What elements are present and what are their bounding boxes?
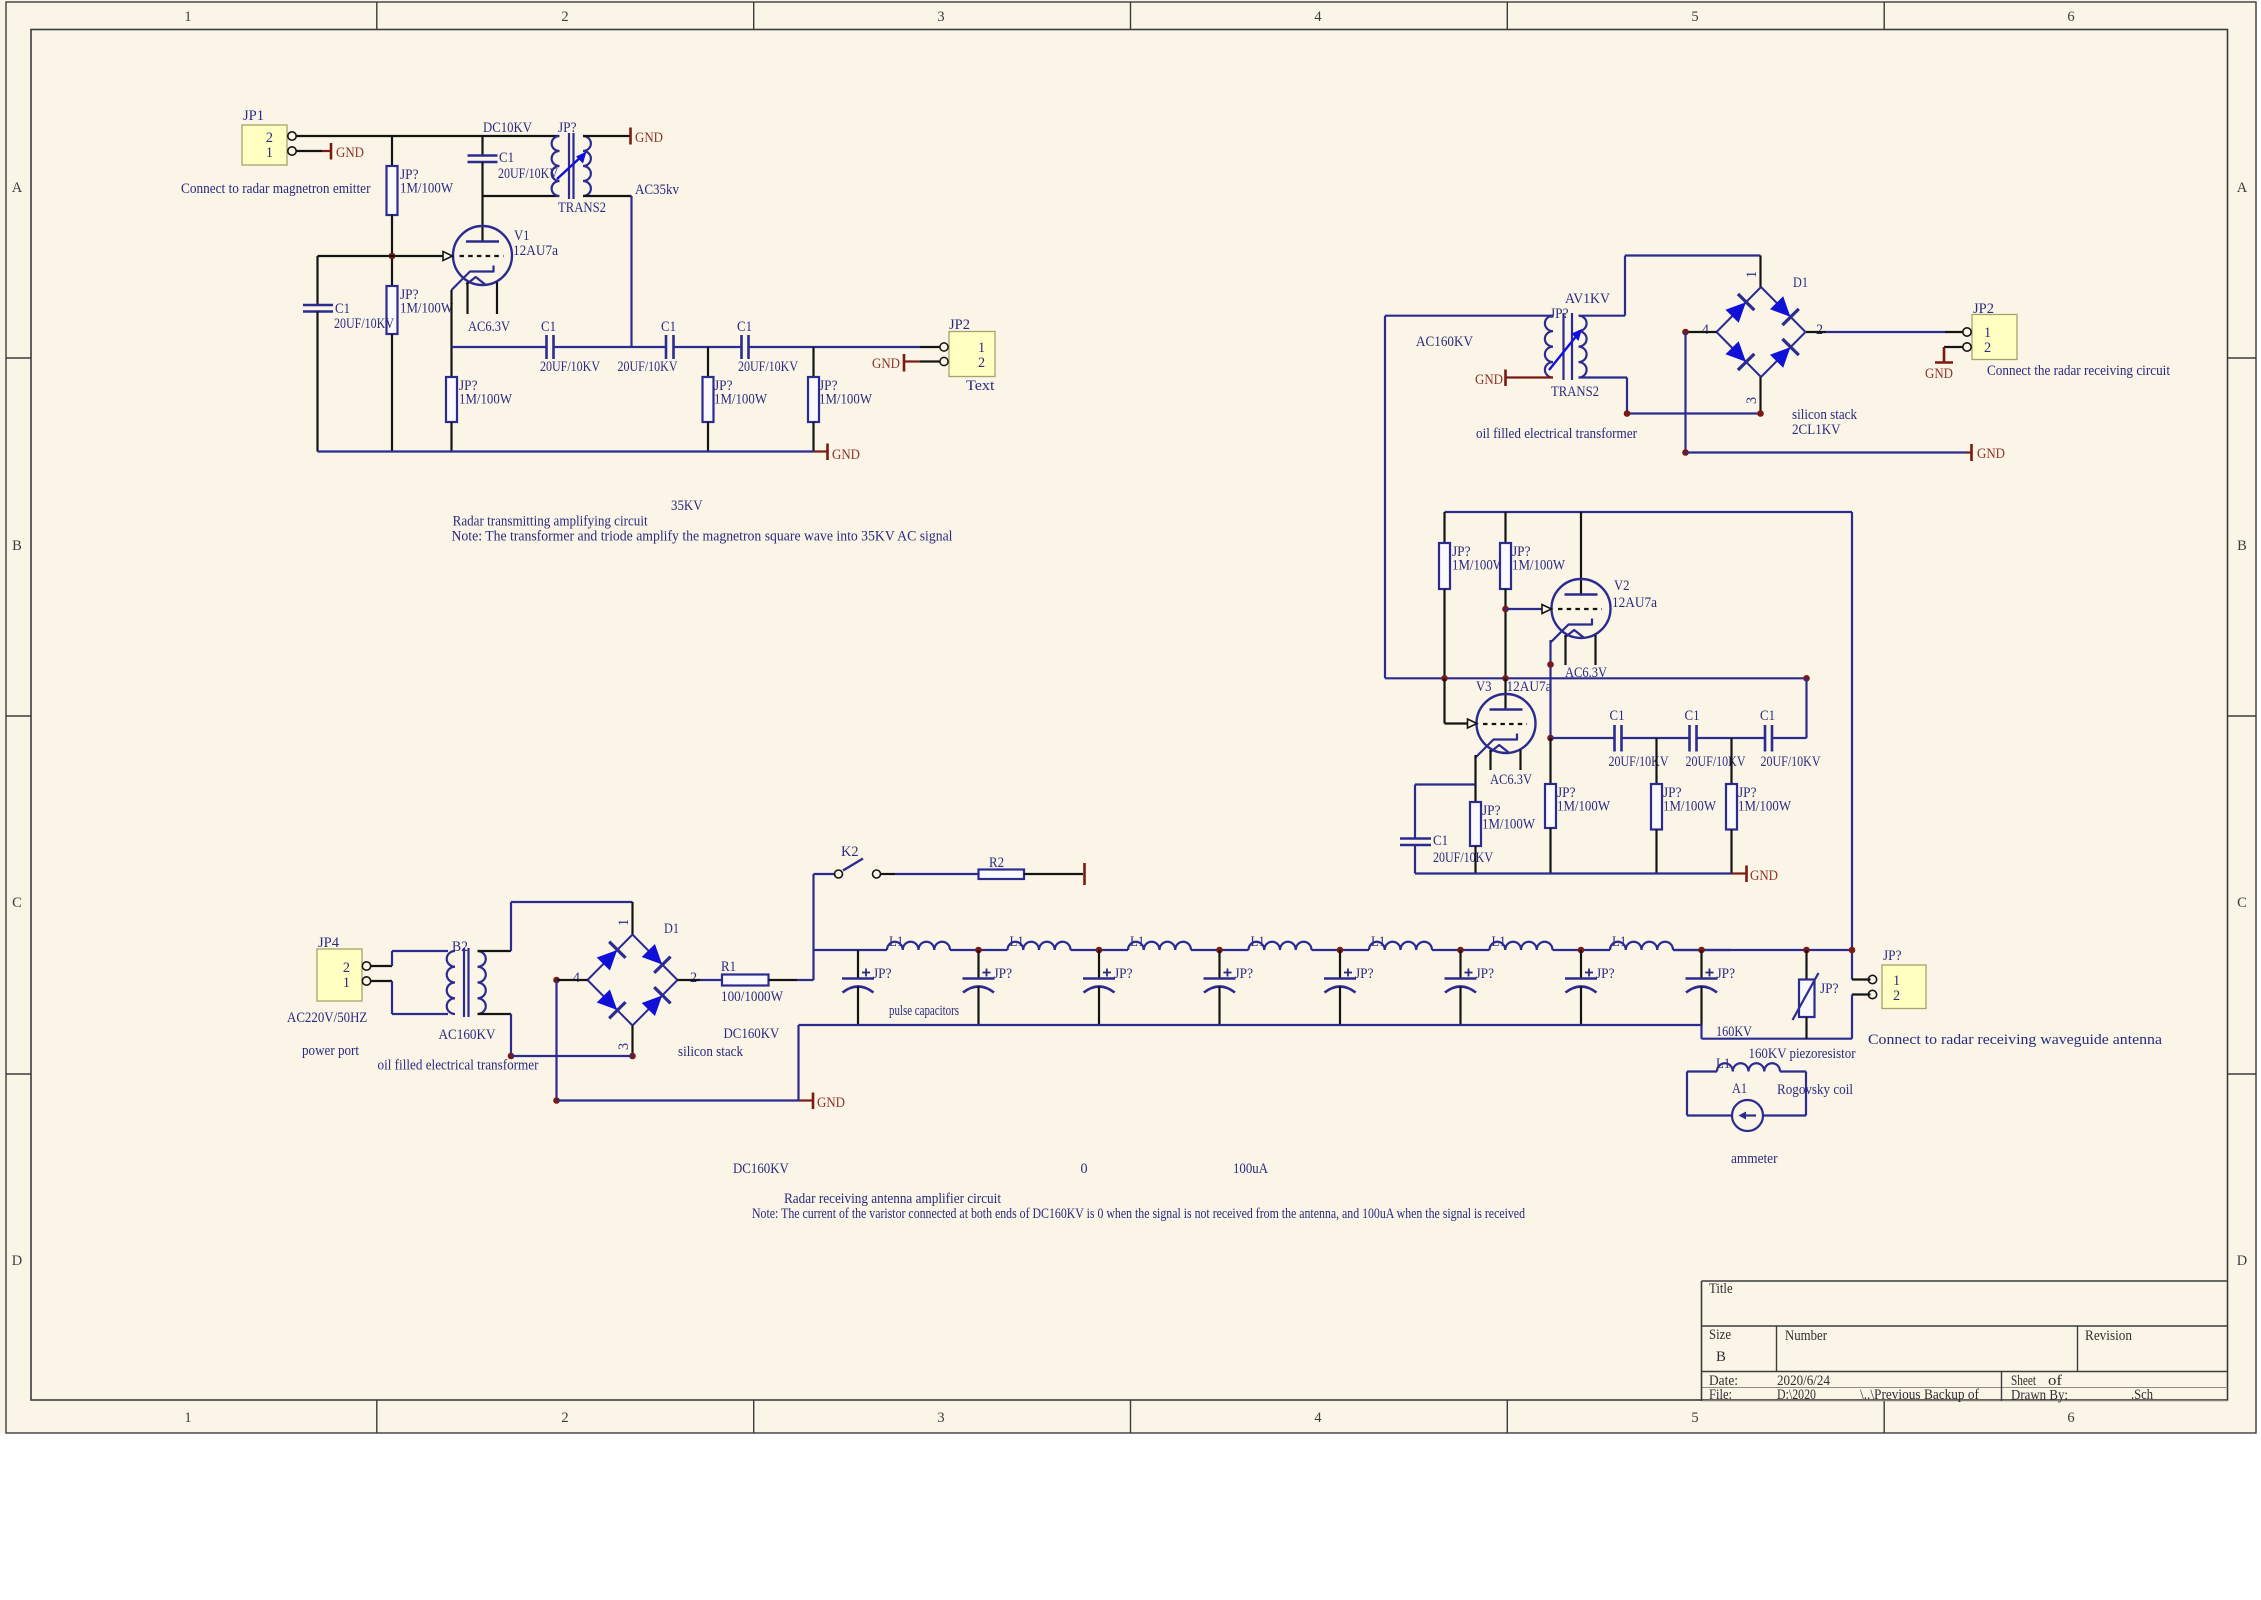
svg-text:GND: GND	[635, 130, 663, 146]
svg-text:DC10KV: DC10KV	[483, 120, 533, 136]
junction dots bridge pin3 wire	[1624, 410, 1764, 417]
svg-text:AC160KV: AC160KV	[1416, 334, 1474, 350]
svg-text:power port: power port	[302, 1043, 359, 1059]
svg-text:A: A	[12, 180, 23, 196]
resistor R1 100/1000W	[678, 959, 814, 1005]
svg-text:20UF/10KV: 20UF/10KV	[1686, 754, 1747, 770]
svg-text:JP?: JP?	[1820, 981, 1839, 997]
resistor R2	[881, 855, 1084, 879]
svg-text:6: 6	[2067, 1410, 2074, 1426]
wire bridge pin2 to JP2	[1806, 331, 1963, 333]
V1 heater pins and AC6.3V	[468, 282, 511, 335]
svg-text:4: 4	[1314, 1410, 1322, 1426]
title block texts	[1709, 1281, 2154, 1404]
capacitor C1 20UF/10KV (rail cap B)	[618, 319, 679, 375]
svg-text:GND: GND	[1925, 366, 1953, 382]
svg-text:Connect to radar magnetron emi: Connect to radar magnetron emitter	[181, 181, 371, 197]
svg-text:B2: B2	[452, 939, 468, 955]
svg-text:20UF/10KV: 20UF/10KV	[498, 166, 559, 182]
wire transformer secondary top to GND	[583, 135, 630, 137]
power port GND at JP1 pin1	[296, 143, 364, 161]
inductor L1 #4	[1249, 934, 1312, 950]
svg-text:D:\2020: D:\2020	[1777, 1387, 1816, 1403]
svg-text:JP?: JP?	[1476, 966, 1495, 982]
svg-text:C1: C1	[499, 150, 514, 166]
svg-text:D: D	[2237, 1253, 2247, 1269]
inductor L1 #1	[887, 934, 950, 950]
svg-text:0: 0	[1081, 1161, 1088, 1177]
wire riser x=813.5 R1 to K2 and ladder	[812, 874, 814, 980]
svg-text:C1: C1	[335, 301, 350, 317]
svg-text:JP?: JP?	[1235, 966, 1254, 982]
svg-text:R1: R1	[721, 959, 736, 975]
svg-text:K2: K2	[841, 844, 859, 860]
svg-text:JP?: JP?	[1717, 966, 1736, 982]
svg-text:1M/100W: 1M/100W	[1557, 799, 1611, 815]
labels DC160KV silicon stack	[678, 1026, 780, 1060]
wire JP? pin1 to ladder vertical	[1852, 978, 1871, 980]
V1 cathode wire down (x=451.5)	[450, 290, 452, 377]
wire LC ladder row y=950	[814, 949, 1853, 951]
power port GND at JP2 pin2 (bottom bar)	[1925, 347, 1963, 382]
svg-text:JP?: JP?	[994, 966, 1013, 982]
svg-text:160KV: 160KV	[1716, 1024, 1753, 1040]
bridge rectifier D1 (silicon stack 2CL1KV)	[1702, 275, 1823, 404]
junction dot ladder right end	[1849, 947, 1856, 954]
triode V2 12AU7a	[1550, 512, 1658, 643]
power port GND bottom left	[799, 1093, 846, 1112]
wire grid branch to left capacitor	[318, 256, 393, 305]
svg-text:1M/100W: 1M/100W	[400, 181, 454, 197]
svg-text:2: 2	[1984, 340, 1991, 356]
svg-text:1M/100W: 1M/100W	[459, 392, 513, 408]
svg-text:JP?: JP?	[1355, 966, 1374, 982]
labels silicon stack 2CL1KV	[1792, 407, 1858, 438]
wire long AC160KV vertical	[1384, 316, 1386, 679]
svg-text:GND: GND	[1475, 372, 1503, 388]
V2 heater pins AC6.3V	[1565, 635, 1608, 681]
svg-text:AC220V/50HZ: AC220V/50HZ	[287, 1010, 367, 1026]
transformer TRANS2 (AV1KV) oil filled	[1545, 291, 1611, 400]
svg-text:C1: C1	[1433, 833, 1448, 849]
svg-text:C1: C1	[737, 319, 752, 335]
connector JP2 (35KV output)	[940, 317, 995, 394]
capacitor C1 20UF/10KV (left)	[303, 301, 395, 452]
svg-text:20UF/10KV: 20UF/10KV	[334, 316, 395, 332]
svg-text:5: 5	[1691, 9, 1698, 25]
svg-text:20UF/10KV: 20UF/10KV	[738, 359, 799, 375]
svg-text:TRANS2: TRANS2	[558, 200, 606, 216]
svg-text:AC6.3V: AC6.3V	[1490, 772, 1533, 788]
svg-text:2: 2	[1893, 988, 1900, 1004]
switch K2	[814, 844, 881, 878]
svg-text:pulse capacitors: pulse capacitors	[889, 1003, 959, 1019]
bottom rail wire y=451.5 and GND	[318, 444, 861, 464]
wire JP1 pin2 to DC10KV node	[296, 135, 559, 137]
resistor JP? 1M/100W (rail, x=708)	[703, 347, 768, 452]
svg-text:1M/100W: 1M/100W	[714, 392, 768, 408]
resistor JP? 1M/100W (x=1656.5)	[1651, 738, 1717, 874]
svg-text:C1: C1	[661, 319, 676, 335]
svg-text:GND: GND	[1750, 868, 1778, 884]
wire JP4 pin1 to B2 primary bottom	[371, 981, 449, 1014]
svg-text:2: 2	[978, 355, 985, 371]
svg-text:1: 1	[1744, 271, 1760, 278]
svg-text:Radar receiving antenna amplif: Radar receiving antenna amplifier circui…	[784, 1191, 1001, 1207]
svg-text:3: 3	[937, 1410, 944, 1426]
connector JP1	[242, 108, 296, 165]
svg-text:C: C	[12, 895, 22, 911]
svg-text:2: 2	[690, 970, 697, 986]
svg-text:JP2: JP2	[949, 317, 970, 333]
V1 grid open-arrow	[392, 252, 453, 261]
svg-text:A: A	[2237, 180, 2248, 196]
svg-text:1: 1	[978, 340, 985, 356]
pulse capacitor JP? #4	[1204, 947, 1254, 1025]
svg-text:JP?: JP?	[1550, 306, 1569, 322]
caption 35KV circuit	[452, 498, 953, 545]
svg-text:1M/100W: 1M/100W	[400, 301, 454, 317]
svg-text:2: 2	[561, 9, 568, 25]
capacitor C1 20UF/10KV (row cap C x=1768.5)	[1760, 708, 1821, 770]
svg-text:2: 2	[1816, 322, 1823, 338]
transformer B2 AC160KV oil filled	[439, 939, 497, 1043]
svg-text:12AU7a: 12AU7a	[513, 243, 559, 259]
Rogovsky coil L1 loop	[1687, 1056, 1853, 1116]
svg-text:1M/100W: 1M/100W	[1512, 558, 1566, 574]
svg-text:AV1KV: AV1KV	[1565, 291, 1611, 307]
wire mid rail y=678.3	[1385, 675, 1807, 682]
label connect waveguide antenna	[1868, 1032, 2163, 1048]
power port bar after R2	[1083, 863, 1086, 885]
svg-text:3: 3	[937, 9, 944, 25]
svg-text:6: 6	[2067, 9, 2074, 25]
svg-text:GND: GND	[1977, 446, 2005, 462]
svg-text:ammeter: ammeter	[1731, 1151, 1778, 1167]
wire bridge pin4 to GND rail	[1682, 329, 1966, 456]
inductor L1 #7	[1610, 934, 1673, 950]
wire secondary top to bridge pin1	[1579, 256, 1761, 316]
svg-text:DC160KV: DC160KV	[733, 1161, 789, 1177]
svg-text:Radar transmitting amplifying: Radar transmitting amplifying circuit	[453, 514, 648, 530]
svg-text:160KV piezoresistor: 160KV piezoresistor	[1749, 1046, 1856, 1062]
svg-text:V2: V2	[1614, 578, 1630, 594]
svg-text:Size: Size	[1709, 1327, 1731, 1343]
capacitor C1 20UF/10KV (row cap B x=1693)	[1685, 708, 1747, 770]
wire AC35kv down to mid rail	[583, 196, 632, 347]
triode V3 12AU7a symbol	[1475, 678, 1536, 758]
caption radar receiving circuit	[752, 1191, 1525, 1222]
svg-text:1: 1	[616, 919, 632, 926]
svg-text:1: 1	[184, 9, 191, 25]
svg-text:4: 4	[573, 970, 580, 986]
svg-text:1: 1	[184, 1410, 191, 1426]
svg-text:D1: D1	[1793, 275, 1808, 291]
svg-text:Number: Number	[1785, 1328, 1827, 1344]
svg-text:Rogovsky coil: Rogovsky coil	[1777, 1082, 1853, 1098]
svg-text:1: 1	[343, 975, 350, 991]
svg-text:Title: Title	[1709, 1281, 1733, 1297]
power port GND right block	[1966, 444, 2005, 462]
svg-text:oil filled electrical transfor: oil filled electrical transformer	[378, 1058, 539, 1074]
svg-text:TRANS2: TRANS2	[1551, 384, 1599, 400]
svg-text:GND: GND	[817, 1095, 845, 1111]
svg-text:1M/100W: 1M/100W	[1738, 799, 1792, 815]
net label DC10KV	[483, 120, 533, 136]
svg-text:JP?: JP?	[1883, 948, 1902, 964]
svg-text:B: B	[12, 538, 22, 554]
svg-text:C: C	[2237, 895, 2247, 911]
svg-text:D1: D1	[664, 921, 679, 937]
mid rail wire y=347	[452, 346, 940, 348]
svg-text:JP?: JP?	[1596, 966, 1615, 982]
inductor L1 #3	[1128, 934, 1191, 950]
V2 cathode wire down to caps row	[1547, 640, 1554, 738]
svg-text:D: D	[12, 1253, 22, 1269]
wire B2 secondary top to bridge pin1	[478, 902, 633, 951]
pulse capacitor JP? #6	[1445, 947, 1495, 1025]
pulse capacitor JP? #7	[1565, 947, 1615, 1025]
svg-text:20UF/10KV: 20UF/10KV	[618, 359, 679, 375]
net label AC160KV	[1416, 334, 1474, 350]
resistor JP? 1M/100W (cathode, x=451.5)	[446, 377, 513, 452]
resistor JP? 1M/100W (upper, x=392)	[387, 136, 454, 286]
pulse capacitor JP? #3	[1083, 947, 1133, 1025]
capacitor C1 20UF/10KV (rail cap A)	[540, 319, 601, 375]
svg-text:3: 3	[1744, 397, 1760, 404]
svg-text:Connect the radar receiving ci: Connect the radar receiving circuit	[1987, 363, 2170, 379]
transformer arrow (variable)	[557, 152, 587, 180]
inductor L1 #5	[1369, 934, 1432, 950]
power port GND at JP2 pin2	[872, 354, 940, 372]
wire cap bottom to transformer primary bottom	[483, 196, 560, 242]
resistor JP? 1M/100W (x=1505.5)	[1500, 512, 1566, 678]
wire AC160KV feed to transformer	[1385, 315, 1553, 317]
svg-text:1M/100W: 1M/100W	[1482, 817, 1536, 833]
svg-text:100uA: 100uA	[1233, 1161, 1269, 1177]
transformer TRANS2 (35KV)	[552, 120, 606, 216]
transformer arrow (variable)	[1549, 329, 1582, 370]
inductor L1 #6	[1490, 934, 1553, 950]
label oil filled electrical transformer	[1476, 426, 1637, 442]
svg-text:Text: Text	[966, 378, 995, 394]
wire bridge pin3 to rail	[511, 1026, 636, 1060]
bridge rectifier D1 (silicon stack bottom)	[573, 921, 697, 1050]
svg-text:Drawn By:: Drawn By:	[2011, 1388, 2068, 1404]
svg-text:C1: C1	[1760, 708, 1775, 724]
wire JP? pin2 to caps rail	[1852, 995, 1871, 1039]
svg-text:Note: The transformer and trio: Note: The transformer and triode amplify…	[452, 529, 953, 545]
svg-text:12AU7a: 12AU7a	[1612, 595, 1658, 611]
V3 cathode branch	[1415, 755, 1476, 785]
label connect receiving circuit	[1987, 363, 2170, 379]
border column labels bottom	[184, 1410, 2074, 1426]
capacitor C1 20UF/10KV (row cap A x=1618)	[1609, 708, 1670, 770]
border row labels right	[2237, 180, 2248, 1269]
capacitor C1 20UF/10KV (top, x=482.5)	[468, 136, 559, 196]
svg-text:4: 4	[1314, 9, 1322, 25]
svg-text:2: 2	[266, 130, 273, 146]
svg-text:V1: V1	[514, 228, 530, 244]
wire caps row y=738	[1547, 735, 1806, 742]
svg-text:.Sch: .Sch	[2131, 1387, 2154, 1403]
resistor JP? 1M/100W (V3 cathode x=1475.5)	[1470, 785, 1536, 874]
svg-text:A1: A1	[1732, 1081, 1747, 1097]
resistor JP? 1M/100W (lower, x=392)	[387, 286, 454, 452]
svg-text:2: 2	[561, 1410, 568, 1426]
svg-text:JP?: JP?	[873, 966, 892, 982]
svg-text:GND: GND	[336, 145, 364, 161]
piezoresistor JP? 160KV	[1793, 947, 1839, 1039]
svg-text:GND: GND	[832, 447, 860, 463]
label pulse capacitors	[889, 1003, 959, 1019]
triode V1 12AU7a	[452, 226, 559, 290]
svg-text:2CL1KV: 2CL1KV	[1792, 422, 1841, 438]
wire B2 secondary bottom to rail	[478, 1014, 515, 1059]
svg-text:12AU7a: 12AU7a	[1507, 679, 1553, 695]
svg-text:oil filled electrical transfor: oil filled electrical transformer	[1476, 426, 1637, 442]
border column labels top	[184, 9, 2074, 25]
V3 grid arrow and wire	[1445, 678, 1478, 728]
inductor L1 #2	[1008, 934, 1071, 950]
connector JP? waveguide antenna	[1868, 948, 1926, 1009]
svg-text:AC6.3V: AC6.3V	[468, 319, 511, 335]
V3 heater pins AC6.3V	[1490, 750, 1533, 788]
svg-text:20UF/10KV: 20UF/10KV	[540, 359, 601, 375]
title block	[1702, 1281, 2228, 1401]
svg-text:silicon stack: silicon stack	[1792, 407, 1858, 423]
svg-text:1M/100W: 1M/100W	[1452, 558, 1506, 574]
svg-text:1M/100W: 1M/100W	[1663, 799, 1717, 815]
bottom rail y=873.5 and GND	[1415, 866, 1778, 885]
label JP1 description	[181, 181, 371, 197]
svg-text:Revision: Revision	[2085, 1328, 2133, 1344]
wire secondary bottom to bridge pin3	[1579, 377, 1761, 414]
svg-text:20UF/10KV: 20UF/10KV	[1761, 754, 1822, 770]
svg-text:V3: V3	[1476, 679, 1492, 695]
svg-text:4: 4	[1702, 322, 1709, 338]
labels AC220V/50HZ power port	[287, 1010, 367, 1059]
svg-text:3: 3	[616, 1043, 632, 1050]
label oil filled electrical transformer (B2)	[378, 1058, 539, 1074]
caption DC160KV 0 100uA	[733, 1161, 1269, 1177]
svg-text:20UF/10KV: 20UF/10KV	[1433, 850, 1494, 866]
svg-text:File:: File:	[1709, 1387, 1732, 1403]
wire JP4 pin2 to B2 primary top	[371, 951, 449, 966]
svg-text:B: B	[2237, 538, 2247, 554]
power port GND at transformer top right	[631, 128, 664, 147]
svg-text:2: 2	[343, 960, 350, 976]
net label AC35kv	[635, 182, 680, 198]
labels V3 12AU7a	[1476, 679, 1552, 695]
svg-text:20UF/10KV: 20UF/10KV	[1609, 754, 1670, 770]
svg-text:1: 1	[1893, 973, 1900, 989]
svg-text:DC160KV: DC160KV	[724, 1026, 780, 1042]
svg-text:1: 1	[266, 145, 273, 161]
svg-text:Connect to radar receiving wav: Connect to radar receiving waveguide ant…	[1868, 1032, 2163, 1048]
svg-text:C1: C1	[1610, 708, 1625, 724]
V2 grid arrow and wire	[1502, 605, 1551, 614]
resistor JP? 1M/100W (x=1550.5 below V2 cathode)	[1545, 738, 1611, 874]
resistor JP? 1M/100W (x=1444.5)	[1439, 512, 1506, 678]
resistor JP? 1M/100W (rail, x=813.5)	[808, 347, 873, 452]
power port GND at transformer primary bottom	[1475, 370, 1553, 389]
pulse capacitor JP? #1	[842, 950, 892, 1025]
svg-text:C1: C1	[1685, 708, 1700, 724]
svg-text:C1: C1	[541, 319, 556, 335]
ammeter A1	[1731, 1081, 1778, 1167]
svg-text:silicon stack: silicon stack	[678, 1044, 744, 1060]
capacitor C1 20UF/10KV (rail cap C)	[737, 319, 799, 375]
svg-text:JP1: JP1	[243, 108, 264, 124]
svg-text:100/1000W: 100/1000W	[721, 989, 784, 1005]
svg-text:\..\Previous Backup of: \..\Previous Backup of	[1860, 1387, 1979, 1403]
pulse capacitor JP? #2	[963, 947, 1013, 1025]
node grid junction dot	[389, 253, 396, 260]
border row labels left	[12, 180, 23, 1269]
connector JP2 (radar receiving)	[1963, 301, 2017, 360]
wire corner down to caps row right end	[1803, 675, 1810, 738]
connector JP4 power port	[317, 935, 371, 1001]
svg-text:1: 1	[1984, 325, 1991, 341]
svg-text:1M/100W: 1M/100W	[819, 392, 873, 408]
wire top rail y=512	[1445, 511, 1853, 513]
svg-text:5: 5	[1691, 1410, 1698, 1426]
resistor JP? 1M/100W (x=1731.5)	[1726, 738, 1792, 874]
svg-text:GND: GND	[872, 356, 900, 372]
capacitor C1 20UF/10KV (V3 left)	[1400, 785, 1494, 874]
svg-text:AC35kv: AC35kv	[635, 182, 680, 198]
svg-text:B: B	[1716, 1349, 1726, 1365]
svg-text:AC160KV: AC160KV	[439, 1027, 497, 1043]
labels 160KV piezoresistor	[1716, 1024, 1856, 1062]
svg-text:35KV: 35KV	[671, 498, 703, 514]
pulse capacitor JP? #8	[1686, 947, 1736, 1025]
svg-text:Note: The current of the varis: Note: The current of the varistor connec…	[752, 1206, 1525, 1222]
pulse capacitor JP? #5	[1324, 947, 1374, 1025]
wire caps bottom rail y=1025	[799, 1025, 1853, 1101]
svg-text:JP?: JP?	[1114, 966, 1133, 982]
wire bridge pin4 to GND	[553, 977, 798, 1104]
wire long vertical x=1852 to ladder	[1851, 512, 1853, 980]
